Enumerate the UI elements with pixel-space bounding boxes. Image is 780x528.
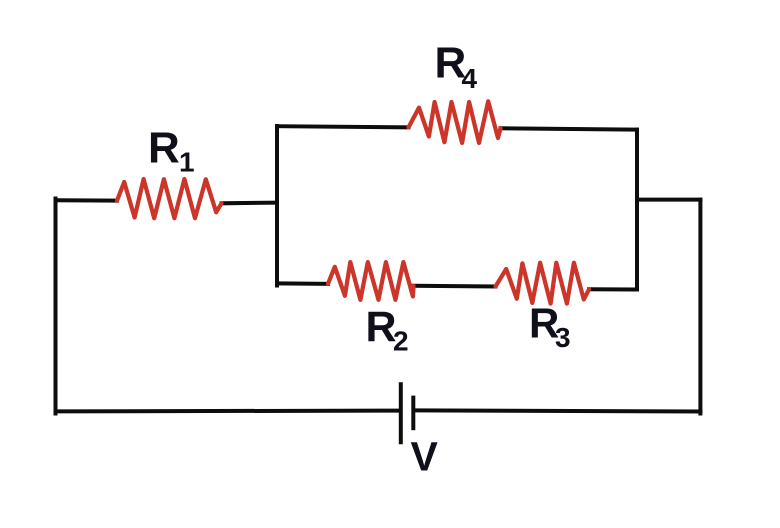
svg-text:3: 3: [555, 322, 571, 353]
svg-text:1: 1: [179, 147, 195, 178]
svg-text:2: 2: [393, 326, 409, 357]
svg-text:R: R: [148, 124, 180, 173]
svg-text:4: 4: [462, 63, 478, 94]
svg-text:V: V: [411, 434, 439, 480]
svg-text:R: R: [366, 303, 397, 351]
